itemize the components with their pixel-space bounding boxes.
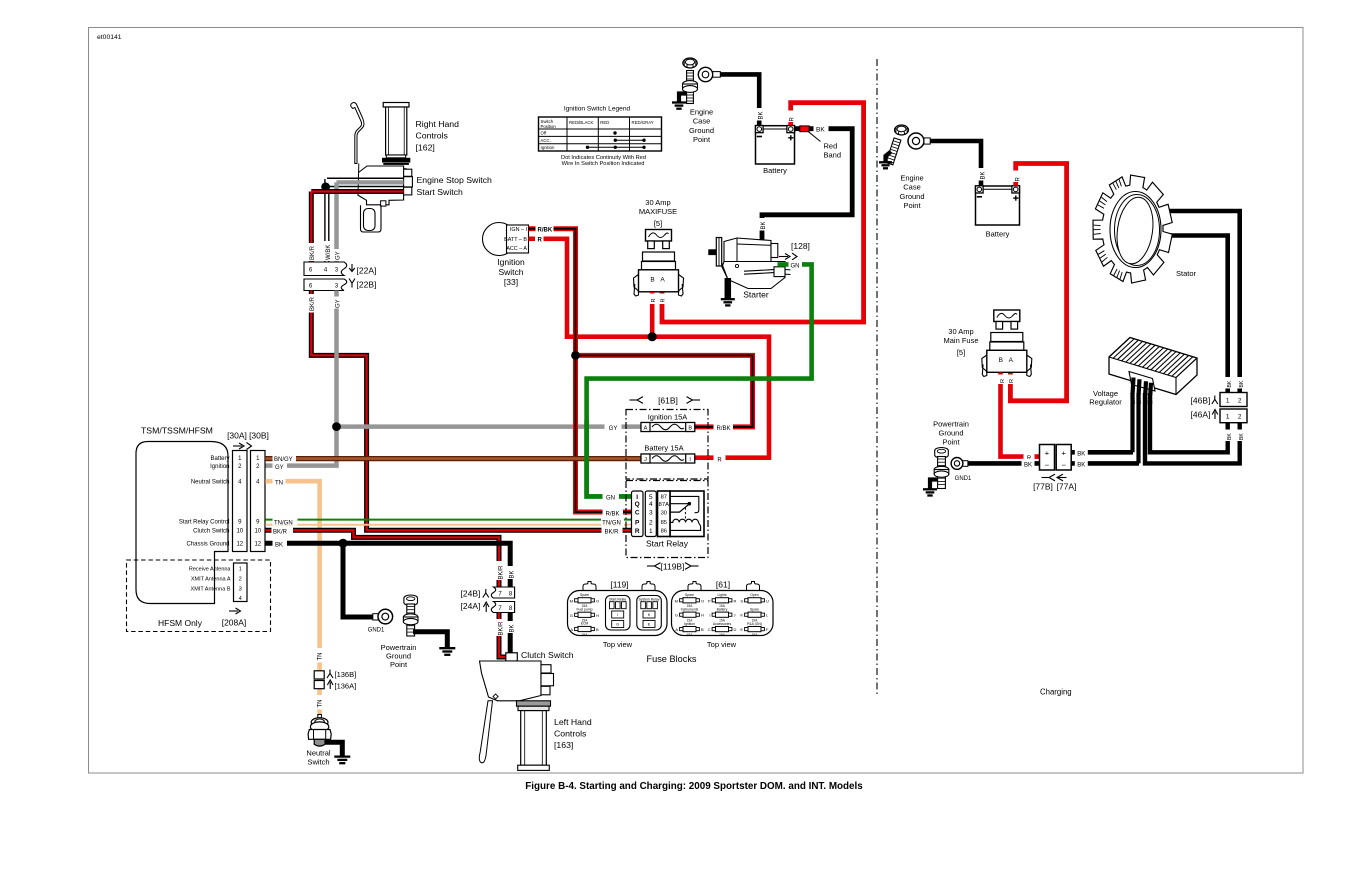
fuse block [119] top view (568, 582, 668, 637)
svg-text:GN: GN (606, 495, 615, 501)
svg-text:10: 10 (254, 529, 261, 535)
wire BK regulator pin2 to [77A] minus (1136, 393, 1140, 463)
svg-text:A: A (1009, 357, 1014, 364)
wire label BK/R above 22A (307, 243, 317, 261)
GND1 ring terminal (charging) (963, 461, 968, 467)
wire BK battery1 negative to engine case ground (720, 74, 759, 125)
svg-text:R/BK: R/BK (716, 426, 730, 432)
svg-text:R: R (790, 117, 796, 122)
svg-text:W/BK: W/BK (326, 245, 332, 260)
svg-text:R: R (1000, 379, 1006, 383)
svg-text:GND1: GND1 (955, 476, 972, 482)
svg-text:15A: 15A (719, 633, 726, 637)
svg-text:4: 4 (649, 501, 653, 508)
ring terminal engine case right (908, 133, 924, 149)
svg-text:Switch: Switch (307, 757, 329, 766)
fuse block dash-dot box [61B] (626, 410, 708, 480)
svg-text:Receive Antenna: Receive Antenna (189, 567, 232, 573)
powertrain ground wire (left) (413, 632, 447, 648)
wire BK to GND1 ring (343, 543, 373, 617)
svg-text:I: I (617, 613, 618, 617)
battery (starting) (756, 126, 795, 164)
svg-text:BK: BK (1024, 462, 1032, 468)
svg-text:RED/GRAY: RED/GRAY (632, 120, 654, 125)
svg-text:Spare: Spare (685, 593, 694, 597)
stator illustration (1093, 175, 1172, 283)
wire TN/GN TSM pin9 to start relay 85 (265, 519, 631, 521)
svg-text:System Relay: System Relay (639, 597, 660, 601)
svg-text:R: R (538, 237, 543, 243)
connector [22A] label (349, 264, 355, 272)
connector [22B] (304, 279, 347, 291)
svg-text:1: 1 (1226, 397, 1230, 404)
wire BK/R stub into 24B (497, 583, 502, 588)
svg-text:Case: Case (693, 117, 711, 126)
wire label BK/R below 22B (307, 294, 317, 313)
svg-text:Open: Open (750, 593, 758, 597)
svg-text:B: B (596, 627, 599, 632)
svg-text:2: 2 (239, 577, 242, 583)
svg-text:TN/GN: TN/GN (602, 520, 621, 526)
connector [77A] (1056, 445, 1071, 471)
wire R ignition switch to battery fuse (529, 237, 536, 242)
svg-text:Main Fuse: Main Fuse (943, 336, 978, 345)
svg-text:O: O (701, 598, 704, 603)
svg-text:M: M (570, 598, 573, 603)
connector [61B] label (630, 399, 638, 401)
wire label GY above 22A (332, 249, 342, 261)
engine case ground point (charging) (895, 125, 909, 135)
svg-text:C: C (708, 627, 711, 632)
svg-text:5: 5 (649, 494, 653, 501)
wire GY from 22B to TSM and ignition fuse (265, 291, 336, 466)
svg-text:Q: Q (635, 501, 640, 508)
svg-text:[77B]: [77B] (1033, 482, 1053, 492)
svg-text:12: 12 (254, 542, 261, 548)
svg-text:[162]: [162] (416, 143, 435, 153)
wire BK 24A to clutch switch (508, 613, 513, 653)
svg-text:Top view: Top view (603, 640, 633, 649)
svg-text:[61B]: [61B] (658, 396, 678, 406)
svg-text:[24A]: [24A] (461, 601, 481, 611)
svg-text:12: 12 (236, 542, 243, 548)
svg-text:BK: BK (1077, 463, 1085, 469)
junction dot BK (338, 539, 347, 548)
ground symbol neutral switch (334, 755, 350, 757)
svg-text:BK: BK (1077, 451, 1085, 457)
svg-text:P: P (708, 598, 711, 603)
svg-text:J: J (734, 613, 736, 618)
svg-text:2: 2 (1238, 414, 1242, 421)
svg-text:Engine: Engine (900, 174, 923, 183)
wire label BK below 24A (506, 621, 515, 633)
svg-text:[136A]: [136A] (335, 682, 357, 691)
svg-text:BK: BK (1227, 433, 1233, 440)
wire BK neutral switch to ground (325, 742, 343, 756)
svg-text:[46A]: [46A] (1191, 410, 1211, 420)
svg-text:Point: Point (390, 660, 408, 669)
junction dot W/BK (321, 183, 330, 192)
clutch switch terminal box (506, 653, 518, 661)
wire BK [77A] minus to regulator (1071, 461, 1139, 466)
red band leader line (809, 132, 821, 142)
wire BK TSM pin12 chassis ground (265, 543, 510, 582)
svg-text:3: 3 (649, 510, 653, 517)
svg-text:XMIT Antenna A: XMIT Antenna A (191, 577, 231, 583)
wire label BK above 24B (506, 566, 515, 579)
svg-text:+: + (1062, 448, 1067, 457)
svg-text:G: G (570, 613, 573, 618)
voltage regulator illustration (1109, 338, 1197, 400)
svg-text:BK/R: BK/R (310, 296, 316, 311)
svg-text:Battery 15A: Battery 15A (644, 444, 683, 453)
svg-text:ECM: ECM (581, 622, 589, 626)
svg-text:R: R (717, 457, 722, 463)
svg-text:G: G (616, 623, 619, 627)
svg-text:GY: GY (335, 299, 341, 308)
svg-text:O: O (596, 598, 599, 603)
svg-text:30: 30 (661, 510, 667, 516)
connector [22B] label (349, 279, 355, 288)
svg-text:J: J (644, 457, 647, 463)
svg-text:P&A (GN): P&A (GN) (747, 622, 762, 626)
connector [46B] (1220, 393, 1247, 407)
svg-text:[163]: [163] (554, 740, 573, 750)
ring terminal engine case left (698, 67, 712, 81)
svg-text:BK/R: BK/R (310, 245, 316, 260)
svg-text:TSM/TSSM/HFSM: TSM/TSSM/HFSM (141, 426, 213, 436)
wire R/BK crossing over R (573, 328, 578, 346)
connector [77B] (1040, 445, 1055, 471)
svg-text:Starter: Starter (743, 290, 769, 300)
wire R battery1 positive to maxifuse A (662, 103, 864, 322)
svg-text:Chassis Ground: Chassis Ground (186, 542, 229, 548)
red band on battery cable (800, 126, 809, 132)
svg-text:H: H (596, 613, 599, 618)
svg-text:[30B]: [30B] (249, 431, 269, 441)
svg-text:ACC.: ACC. (541, 138, 551, 143)
svg-text:Battery: Battery (763, 166, 787, 175)
svg-text:S: S (740, 598, 743, 603)
svg-text:[119]: [119] (610, 580, 628, 590)
svg-text:et00141: et00141 (97, 34, 122, 41)
wire BK engine case ground to battery2 (930, 141, 981, 186)
right hand controls illustration (351, 103, 413, 233)
svg-text:85: 85 (661, 520, 667, 526)
svg-text:I: I (636, 494, 638, 501)
svg-text:Band: Band (824, 151, 842, 160)
battery (charging) (976, 186, 1020, 225)
svg-text:Ignition: Ignition (497, 257, 525, 267)
wire label R at battery fuse (714, 454, 726, 464)
svg-text:4: 4 (239, 596, 242, 602)
svg-text:+: + (1045, 448, 1050, 457)
svg-text:BK: BK (980, 171, 986, 179)
svg-text:XMIT Antenna B: XMIT Antenna B (191, 586, 231, 592)
svg-text:BK/R: BK/R (498, 565, 504, 580)
battery plus sign (788, 137, 793, 139)
svg-text:1: 1 (1226, 414, 1230, 421)
svg-text:I: I (709, 613, 710, 618)
svg-text:Ignition: Ignition (684, 622, 695, 626)
svg-text:R: R (651, 299, 657, 303)
connector [136A] label (329, 682, 331, 689)
svg-text:1: 1 (239, 567, 242, 573)
fuse block [61] top view (672, 582, 774, 637)
svg-text:15A: 15A (752, 633, 759, 637)
wire R battery2 to main fuse (1010, 164, 1066, 401)
svg-text:A: A (660, 277, 665, 284)
svg-text:R/BK: R/BK (605, 511, 619, 517)
svg-text:H: H (701, 613, 704, 618)
svg-text:[30A]: [30A] (227, 431, 247, 441)
ignition switch legend table (539, 106, 662, 152)
powertrain ground point bolt (left) (404, 595, 418, 601)
wire label BK/R above 24B (495, 561, 504, 580)
neutral switch (308, 715, 331, 747)
svg-text:Right Hand: Right Hand (416, 119, 460, 129)
svg-text:E: E (740, 627, 743, 632)
wire BK [77A] plus to regulator (1071, 450, 1133, 455)
svg-text:BK/R: BK/R (604, 530, 619, 536)
wire BK GND1 to [77B] minus (968, 461, 1040, 466)
svg-text:[24B]: [24B] (461, 588, 481, 598)
wire label BK below 46A pin2 (1236, 430, 1245, 442)
connector [136B] (314, 671, 324, 679)
svg-text:Clutch Switch: Clutch Switch (521, 650, 574, 660)
svg-text:Battery: Battery (986, 230, 1010, 239)
wire BK/R 24A to clutch switch (499, 613, 506, 658)
wire BK/R TSM pin10 to clutch switch (265, 530, 499, 582)
svg-text:GY: GY (335, 251, 341, 260)
svg-text:BK/R: BK/R (498, 621, 504, 636)
svg-text:Dot Indicates Continuity With: Dot Indicates Continuity With Red (561, 155, 646, 161)
svg-text:[208A]: [208A] (222, 618, 247, 628)
svg-text:Regulator: Regulator (1089, 398, 1122, 407)
svg-text:GY: GY (609, 426, 618, 432)
svg-text:U: U (766, 598, 769, 603)
svg-text:BATT – B: BATT – B (504, 237, 527, 243)
wire BK/R from 22B to start relay 86 (311, 291, 631, 531)
svg-text:ACC – A: ACC – A (506, 246, 527, 252)
wire GN starter to start relay 87 (587, 264, 812, 496)
junction dot R (648, 332, 657, 341)
ground symbol starter (721, 298, 735, 300)
svg-text:TN/GN: TN/GN (274, 520, 293, 526)
start relay dash-dot box [119B] (626, 481, 708, 558)
svg-text:Ground: Ground (689, 126, 714, 135)
svg-text:Neutral Switch: Neutral Switch (191, 480, 230, 486)
svg-text:TN: TN (275, 480, 283, 486)
svg-text:Engine Stop Switch: Engine Stop Switch (417, 175, 493, 185)
svg-text:Ignition: Ignition (210, 464, 229, 470)
svg-text:15A: 15A (582, 633, 589, 637)
battery2 minus sign (977, 196, 982, 198)
svg-text:Off: Off (541, 131, 547, 136)
battery minus sign (757, 136, 762, 138)
wire BK regulator pin3 to [46A] pin2 (1145, 393, 1240, 463)
svg-text:10: 10 (236, 529, 243, 535)
svg-text:Fuel pump: Fuel pump (576, 608, 592, 612)
wire BK/R from start switch (311, 192, 403, 263)
TSM/TSSM/HFSM module box (136, 442, 228, 604)
svg-text:Left Hand: Left Hand (554, 717, 592, 727)
svg-text:R: R (1015, 176, 1021, 181)
wire R maxifuse B to junction (650, 292, 655, 337)
wire label BK below 46A pin1 (1223, 430, 1232, 442)
svg-text:Wire In Switch Position Indica: Wire In Switch Position Indicated (562, 161, 645, 167)
wire W/BK from start switch (327, 177, 404, 179)
svg-text:B: B (999, 357, 1003, 364)
svg-text:GN: GN (791, 263, 800, 269)
svg-text:A: A (570, 627, 573, 632)
wire label TN lower (313, 695, 322, 710)
svg-text:87A: 87A (659, 502, 669, 508)
wire GY from engine stop switch (337, 180, 404, 184)
wire label W/BK above 22A (323, 241, 333, 261)
page frame (89, 28, 1304, 774)
svg-text:Ignition Switch Legend: Ignition Switch Legend (564, 106, 631, 113)
wire TN TSM pin4 to neutral switch (265, 481, 319, 714)
svg-text:[136B]: [136B] (335, 670, 357, 679)
svg-text:Lights: Lights (717, 593, 726, 597)
harness arrow 30A-30B (233, 445, 242, 447)
connector [46A] (1220, 409, 1247, 423)
svg-text:BK: BK (1227, 380, 1233, 387)
svg-text:BK: BK (1239, 433, 1245, 440)
start relay (632, 491, 705, 537)
ground symbol powertrain right (923, 488, 937, 490)
svg-text:Battery: Battery (717, 607, 728, 611)
svg-text:[5]: [5] (957, 348, 965, 357)
starter ground wire (725, 278, 732, 299)
svg-text:K: K (648, 613, 651, 617)
svg-text:Clutch Switch: Clutch Switch (193, 529, 229, 535)
svg-text:BK: BK (816, 127, 825, 134)
svg-text:Powertrain: Powertrain (381, 643, 417, 652)
svg-text:A: A (675, 627, 678, 632)
battery fuse (641, 454, 695, 463)
svg-text:B: B (688, 426, 692, 432)
svg-text:30 Amp: 30 Amp (948, 327, 973, 336)
svg-text:Ground: Ground (938, 429, 963, 438)
svg-text:Neutral: Neutral (306, 748, 331, 757)
svg-text:BK: BK (510, 570, 516, 578)
wire label BK above 46B pin2 (1236, 377, 1245, 389)
connector [24B] (491, 587, 514, 598)
wire label TN mid (313, 648, 322, 663)
connector [136A] (314, 681, 324, 689)
svg-text:[5]: [5] (654, 219, 662, 228)
wire BN/GY TSM pin1 to battery fuse J (265, 456, 641, 461)
wire label GY at ignition fuse (605, 422, 622, 432)
svg-text:Controls: Controls (416, 131, 449, 141)
svg-text:BK: BK (510, 624, 516, 632)
svg-text:[46B]: [46B] (1191, 396, 1211, 406)
svg-text:Fuse Blocks: Fuse Blocks (646, 654, 696, 664)
wire BK stator bottom to [46B] pin1 (1170, 236, 1228, 393)
svg-text:[22A]: [22A] (357, 266, 377, 276)
svg-text:87: 87 (661, 495, 667, 501)
svg-text:2: 2 (649, 519, 653, 526)
svg-text:MAXIFUSE: MAXIFUSE (639, 207, 677, 216)
connector [119B] label (647, 565, 655, 567)
wire label BK above 46B pin1 (1223, 377, 1232, 389)
svg-text:1: 1 (649, 528, 653, 535)
svg-text:[77A]: [77A] (1057, 482, 1077, 492)
svg-text:Spare: Spare (580, 593, 589, 597)
svg-text:Ignition: Ignition (541, 145, 555, 150)
svg-text:Point: Point (693, 135, 711, 144)
svg-text:RED: RED (600, 120, 609, 125)
svg-text:−: − (1062, 460, 1067, 469)
wire R main fuse B to [77B] (1001, 373, 1040, 457)
wire label BK/R below 24A (495, 619, 504, 636)
junction dot GY (332, 422, 341, 431)
svg-text:Red: Red (824, 142, 838, 151)
svg-text:Charging: Charging (1040, 688, 1072, 697)
svg-text:Case: Case (903, 183, 921, 192)
svg-text:TN: TN (317, 653, 323, 661)
svg-text:Ignition 15A: Ignition 15A (648, 413, 688, 422)
clutch lever illustration (479, 661, 553, 763)
svg-text:3: 3 (239, 586, 242, 592)
svg-text:[119B]: [119B] (661, 562, 685, 572)
svg-text:Point: Point (903, 201, 921, 210)
svg-text:GY: GY (275, 465, 284, 471)
svg-text:GND1: GND1 (368, 628, 385, 634)
svg-text:R/BK: R/BK (538, 227, 553, 233)
svg-text:E: E (648, 623, 651, 627)
wire R/BK ignition switch to ignition fuse and relay 30 (529, 226, 536, 231)
svg-text:BK/R: BK/R (273, 530, 288, 536)
svg-text:K: K (740, 613, 743, 618)
svg-text:Position: Position (541, 124, 557, 129)
svg-text:R: R (1009, 379, 1015, 383)
ground symbol engine case right (886, 152, 892, 162)
svg-text:[61]: [61] (716, 580, 730, 590)
HFSM only dashed box (127, 560, 271, 632)
GND1 ring terminal (373, 614, 379, 620)
wire BK regulator pin1 to [77A] plus (1130, 393, 1134, 452)
svg-text:B: B (701, 627, 704, 632)
svg-text:BK: BK (1239, 380, 1245, 387)
svg-text:Ground: Ground (899, 192, 924, 201)
svg-text:Spare: Spare (750, 607, 759, 611)
svg-text:Point: Point (942, 438, 960, 447)
svg-text:G: G (675, 613, 678, 618)
svg-text:[33]: [33] (504, 277, 518, 287)
svg-text:B: B (650, 277, 654, 284)
svg-text:RED/BLACK: RED/BLACK (569, 120, 593, 125)
ground symbol engine case left (679, 94, 687, 102)
30 amp main fuse [5] (994, 310, 1020, 322)
ground symbol powertrain left (439, 647, 455, 649)
wire label R/BK at relay 30 (603, 507, 624, 517)
svg-text:BK: BK (759, 111, 765, 119)
battery2 plus sign (1013, 197, 1018, 199)
svg-text:[128]: [128] (791, 241, 810, 251)
svg-text:Start Relay: Start Relay (609, 597, 626, 601)
ignition switch [33] (483, 223, 516, 256)
svg-text:2: 2 (1238, 397, 1242, 404)
engine case ground point (starting) (683, 58, 698, 104)
wire label GY below 22B (332, 297, 342, 309)
svg-text:C: C (635, 510, 640, 517)
regulator pin labels BK BK BK BK (1129, 396, 1135, 406)
connector [30B] pin column (251, 451, 266, 552)
svg-text:Start Switch: Start Switch (417, 187, 464, 197)
